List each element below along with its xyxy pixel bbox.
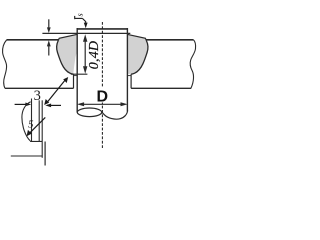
detail stud edge L3 [41, 100, 43, 158]
groove wall curve right [131, 41, 148, 75]
weld face line left (toe to stud) [58, 34, 77, 40]
weld collar top line [42, 32, 130, 34]
dim 0.4D bottom extension line [71, 73, 88, 75]
protrusion dim down arrow [47, 19, 51, 33]
svg-text:5: 5 [28, 119, 34, 131]
groove shoulder tick right [127, 75, 131, 77]
break line left [3, 40, 7, 89]
svg-text:D: D [97, 89, 109, 106]
detail J-groove radius arc [22, 102, 31, 141]
dim 0.4D top arrowhead [83, 34, 87, 42]
round-bar break right arc [102, 111, 127, 120]
label Ts stem [75, 17, 83, 19]
detail slot bottom [30, 140, 42, 142]
weld bead right (gray fill) [128, 34, 148, 74]
stud left edge [76, 28, 78, 113]
stud top edge [77, 28, 128, 30]
root detail double arrow [44, 77, 68, 105]
detail gap edge L2 [38, 100, 40, 141]
centerline [101, 22, 103, 149]
plate bottom edge left [5, 87, 74, 89]
svg-text:0,4D: 0,4D [87, 41, 102, 69]
dim D left arrowhead [77, 102, 84, 106]
dim D white mask [95, 88, 110, 103]
groove shoulder tick left [74, 75, 78, 77]
stud right edge [126, 28, 128, 112]
dim 3 left arrow [15, 103, 32, 107]
svg-text:s: s [75, 13, 84, 16]
leader to radius arc [27, 117, 46, 136]
weld bead left (gray fill) [57, 34, 77, 74]
svg-text:3: 3 [34, 88, 41, 104]
round-bar break ellipse [77, 108, 101, 117]
leader Ts [82, 18, 85, 23]
plate top edge left [7, 39, 59, 41]
plate bottom edge right [131, 87, 191, 89]
dim D right arrowhead [121, 102, 128, 106]
hole wall left [73, 74, 75, 88]
hole wall right [130, 74, 132, 88]
weld face line right [128, 34, 147, 40]
dim 0.4D shaft [84, 41, 86, 68]
detail lower plate top [11, 155, 42, 157]
detail groove edge L1 [31, 99, 33, 142]
break line right [190, 40, 195, 89]
groove wall curve left [57, 41, 74, 75]
plate top edge right [146, 39, 193, 41]
dim 3 right arrow [45, 104, 61, 108]
dim D arrow line [80, 103, 126, 105]
label Ts tick [74, 16, 76, 19]
protrusion dim up arrow [47, 40, 51, 55]
dim 0.4D bottom arrowhead [83, 66, 87, 73]
detail stud edge L4 [44, 142, 46, 166]
